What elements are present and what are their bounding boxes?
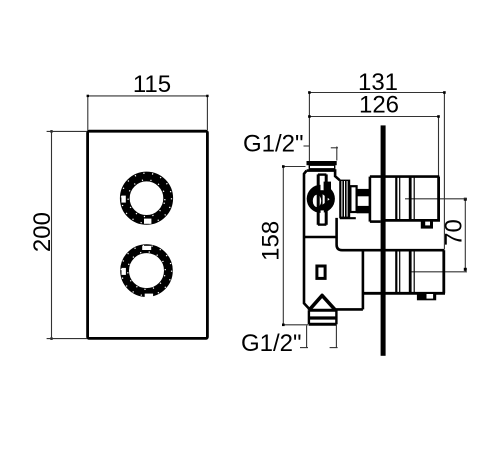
svg-text:G1/2": G1/2" [243,131,304,158]
svg-text:115: 115 [133,71,171,98]
svg-text:126: 126 [359,92,399,119]
svg-text:70: 70 [441,219,468,246]
svg-text:158: 158 [257,221,284,261]
svg-text:G1/2": G1/2" [241,330,302,357]
svg-text:200: 200 [29,212,56,252]
